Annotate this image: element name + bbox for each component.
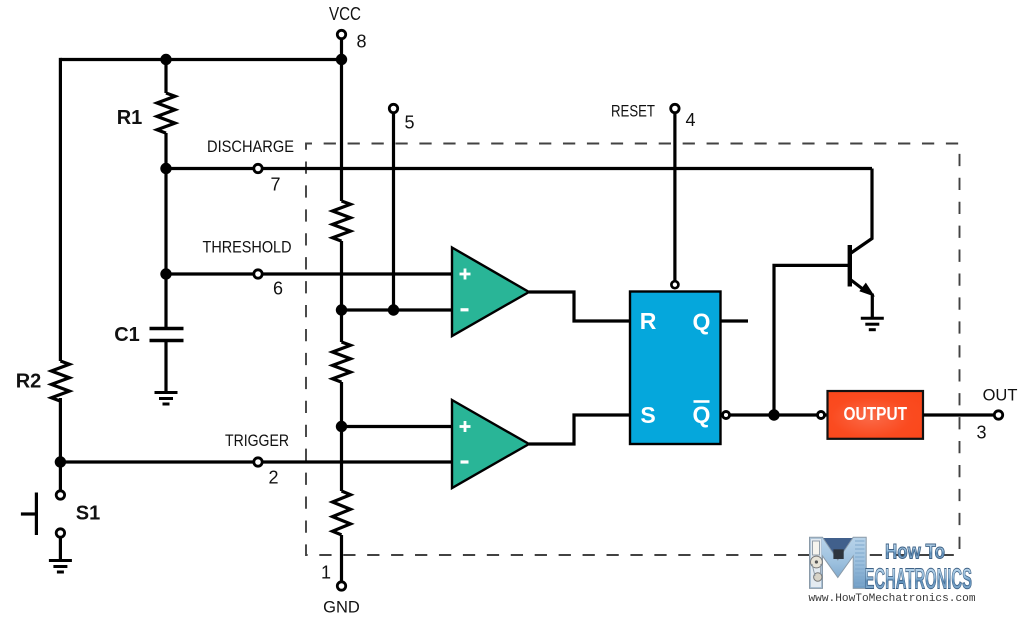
wire top horizontal VCC rail — [60, 58, 342, 61]
RESET pin 4 — [611, 103, 696, 289]
wire OUTPUT to OUT pin 3 — [923, 387, 1017, 443]
wire TRIGGER (pin 2) to comparator 2 - input — [60, 432, 452, 488]
svg-text:7: 7 — [270, 175, 280, 195]
IC boundary dashed box — [306, 144, 960, 556]
junction top rail / pin8 — [336, 54, 347, 65]
svg-text:GND: GND — [323, 599, 360, 617]
svg-text:THRESHOLD: THRESHOLD — [203, 239, 292, 257]
wire divider 3 to GND pin 1 — [340, 535, 343, 582]
svg-text:5: 5 — [404, 113, 414, 133]
svg-text:6: 6 — [273, 279, 283, 299]
wire tap 2 to comparator 2 + input — [342, 425, 453, 428]
ground (S1) — [49, 561, 72, 573]
wire DISCHARGE (pin 7) to transistor collector — [166, 138, 872, 195]
wire R1 bottom to threshold junction — [164, 169, 167, 275]
junction Q-bar / transistor base — [768, 409, 779, 420]
junction tap2 — [336, 421, 347, 432]
resistor divider 1 — [333, 201, 351, 241]
pin 1 GND — [321, 563, 360, 617]
flip-flop U3 — [630, 292, 721, 445]
OUTPUT block — [828, 391, 924, 439]
resistor divider 3 — [333, 491, 351, 535]
logo HowToMechatronics — [809, 537, 976, 605]
wire comparator 2 output to flip-flop S — [529, 415, 630, 444]
svg-text:www.HowToMechatronics.com: www.HowToMechatronics.com — [809, 593, 976, 605]
svg-text:2: 2 — [268, 468, 278, 488]
svg-text:1: 1 — [321, 563, 331, 583]
svg-text:C1: C1 — [114, 324, 140, 346]
comparator U2 (trigger) — [452, 400, 529, 488]
junction discharge — [160, 163, 171, 174]
wire left vertical rail (top to R2) — [59, 58, 62, 361]
pin 5 control voltage — [389, 104, 414, 310]
svg-text:RESET: RESET — [611, 103, 655, 121]
svg-text:OUT: OUT — [983, 387, 1018, 405]
junction threshold — [160, 268, 171, 279]
resistor R2 — [16, 361, 70, 401]
wire THRESHOLD (pin 6) to comparator 1 + input — [166, 239, 452, 299]
svg-text:Q: Q — [693, 309, 711, 335]
resistor divider 2 — [333, 342, 351, 382]
wire base drive — [774, 265, 849, 415]
transistor Q1 — [850, 169, 874, 319]
wire divider 2 to divider 3 — [340, 382, 343, 491]
svg-text:TRIGGER: TRIGGER — [225, 432, 289, 450]
junction pin5 / cv wire — [388, 304, 399, 315]
wire control voltage tap to comparator 1 - input — [342, 308, 453, 311]
switch S1 — [21, 462, 100, 559]
junction trigger — [55, 456, 66, 467]
wire divider 1 to tap 1 — [340, 241, 343, 342]
capacitor C1 — [114, 274, 183, 391]
svg-text:DISCHARGE: DISCHARGE — [207, 138, 294, 156]
svg-text:8: 8 — [356, 32, 366, 52]
svg-text:VCC: VCC — [329, 4, 361, 24]
ground (C1) — [155, 393, 178, 405]
svg-text:R: R — [640, 308, 657, 334]
wire Q output stub — [721, 319, 749, 322]
ground (transistor) — [861, 318, 884, 330]
svg-text:S1: S1 — [76, 503, 100, 525]
VCC pin 8 — [329, 4, 367, 60]
wire R2 bottom to trigger junction — [59, 398, 62, 462]
junction tap1 — [336, 304, 347, 315]
junction top rail / R1 branch — [160, 54, 171, 65]
svg-text:4: 4 — [685, 110, 695, 130]
svg-text:ECHATRONICS: ECHATRONICS — [865, 564, 973, 596]
svg-text:How To: How To — [885, 541, 945, 564]
svg-text:Q: Q — [693, 402, 711, 428]
svg-text:3: 3 — [976, 423, 986, 443]
resistor R1 — [117, 60, 175, 169]
wire internal VCC line pin8 down — [340, 60, 343, 202]
wire comparator 1 output to flip-flop R — [529, 292, 630, 321]
svg-text:R1: R1 — [117, 107, 143, 129]
svg-text:R2: R2 — [16, 371, 42, 393]
svg-text:S: S — [640, 402, 655, 428]
logo letter M — [810, 537, 867, 588]
comparator U1 (threshold) — [452, 248, 529, 337]
wire Q-bar output to OUTPUT block — [723, 412, 828, 419]
svg-text:OUTPUT: OUTPUT — [844, 404, 908, 424]
